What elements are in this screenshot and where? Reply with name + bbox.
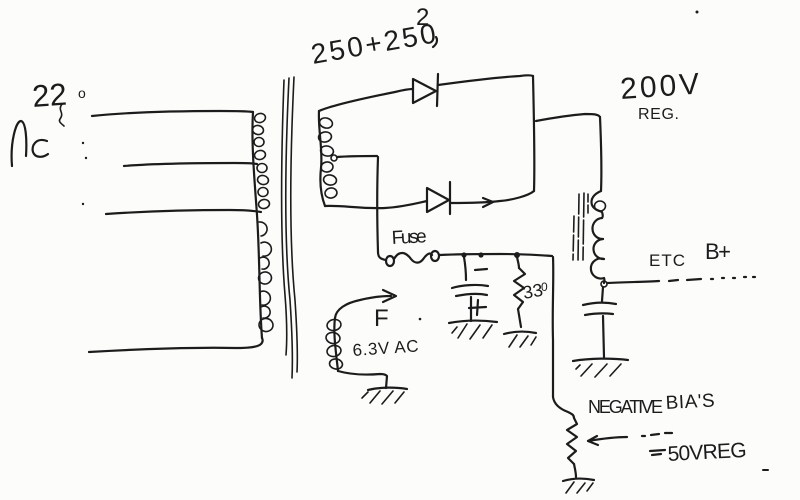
wire 6.3V top with arrow F — [335, 290, 396, 318]
capacitor C1 (electrolytic) — [452, 257, 488, 321]
secondary HV winding — [318, 111, 338, 206]
ground G4 (bias) — [563, 479, 594, 493]
label 250+250^2 — [309, 4, 438, 70]
label 220 primary voltage — [31, 77, 86, 126]
fuse F1 — [386, 251, 439, 266]
svg-text:200V: 200V — [619, 68, 700, 106]
label NEGATIVE BIAS — [588, 390, 715, 417]
svg-text:22: 22 — [31, 77, 68, 114]
secondary HV top lead — [319, 89, 413, 111]
dashes before -50V — [642, 433, 672, 436]
svg-text:F: F — [374, 305, 389, 332]
resistor R1 330 — [514, 257, 525, 327]
transformer primary winding — [252, 112, 274, 338]
svg-text:0: 0 — [541, 280, 548, 294]
svg-text:Fuse: Fuse — [391, 226, 427, 249]
capacitor C2 output — [583, 287, 616, 357]
secondary center tap wire — [331, 155, 378, 252]
wire rectifier right vertical — [533, 76, 534, 191]
wire primary tap 2 — [124, 163, 257, 166]
diode D1 (top) — [413, 74, 438, 106]
label 200V REG — [619, 68, 700, 123]
transformer core laminations — [282, 77, 298, 378]
svg-text:2: 2 — [416, 4, 429, 31]
label AC (mains) — [12, 121, 48, 166]
ground G2 (below R1) — [504, 332, 536, 347]
ground G1 (below C1) — [449, 321, 497, 339]
wire bias vertical — [552, 257, 555, 397]
svg-text:6.3V AC: 6.3V AC — [352, 336, 419, 360]
secondary HV bottom lead — [325, 201, 427, 208]
label 330 — [521, 280, 548, 303]
ground G3 (6.3V) — [362, 388, 407, 404]
svg-text:BIA'S: BIA'S — [665, 390, 715, 414]
choke core marks — [573, 193, 588, 262]
svg-text:50VREG: 50VREG — [667, 439, 747, 466]
label ETC B+ — [649, 239, 731, 270]
choke L1 winding — [591, 191, 606, 283]
wire center tap to fuse — [378, 252, 386, 260]
wire fuse to bias corner — [440, 254, 552, 256]
svg-text:B+: B+ — [705, 239, 731, 264]
svg-text:ETC: ETC — [649, 251, 685, 270]
stray specks — [82, 11, 769, 472]
ground G5 (below C2) — [573, 359, 628, 377]
resistor R2 bias — [567, 418, 577, 464]
wire D1 cathode to corner — [438, 75, 533, 85]
arrow to bias resistor — [588, 436, 627, 445]
wire B+ dashed — [669, 277, 755, 281]
wire rectifier output to choke — [536, 114, 600, 121]
wire primary bottom — [89, 338, 263, 352]
node choke output — [601, 281, 607, 287]
diode D2 (bottom) — [427, 182, 450, 214]
label -50V REG — [650, 439, 747, 466]
wire rectifier bottom (to D2 cathode) with arrow — [451, 191, 534, 207]
wire primary tap 1 — [92, 111, 253, 116]
wire primary tap 3 — [106, 210, 261, 214]
wire 6.3V bottom — [338, 371, 387, 388]
wire B+ solid — [607, 281, 659, 283]
secondary 6.3V winding — [325, 318, 343, 371]
svg-text:NEGATIVE: NEGATIVE — [588, 397, 663, 417]
junction dots — [461, 252, 520, 258]
svg-text:REG.: REG. — [638, 106, 679, 123]
svg-text:o: o — [78, 85, 86, 101]
